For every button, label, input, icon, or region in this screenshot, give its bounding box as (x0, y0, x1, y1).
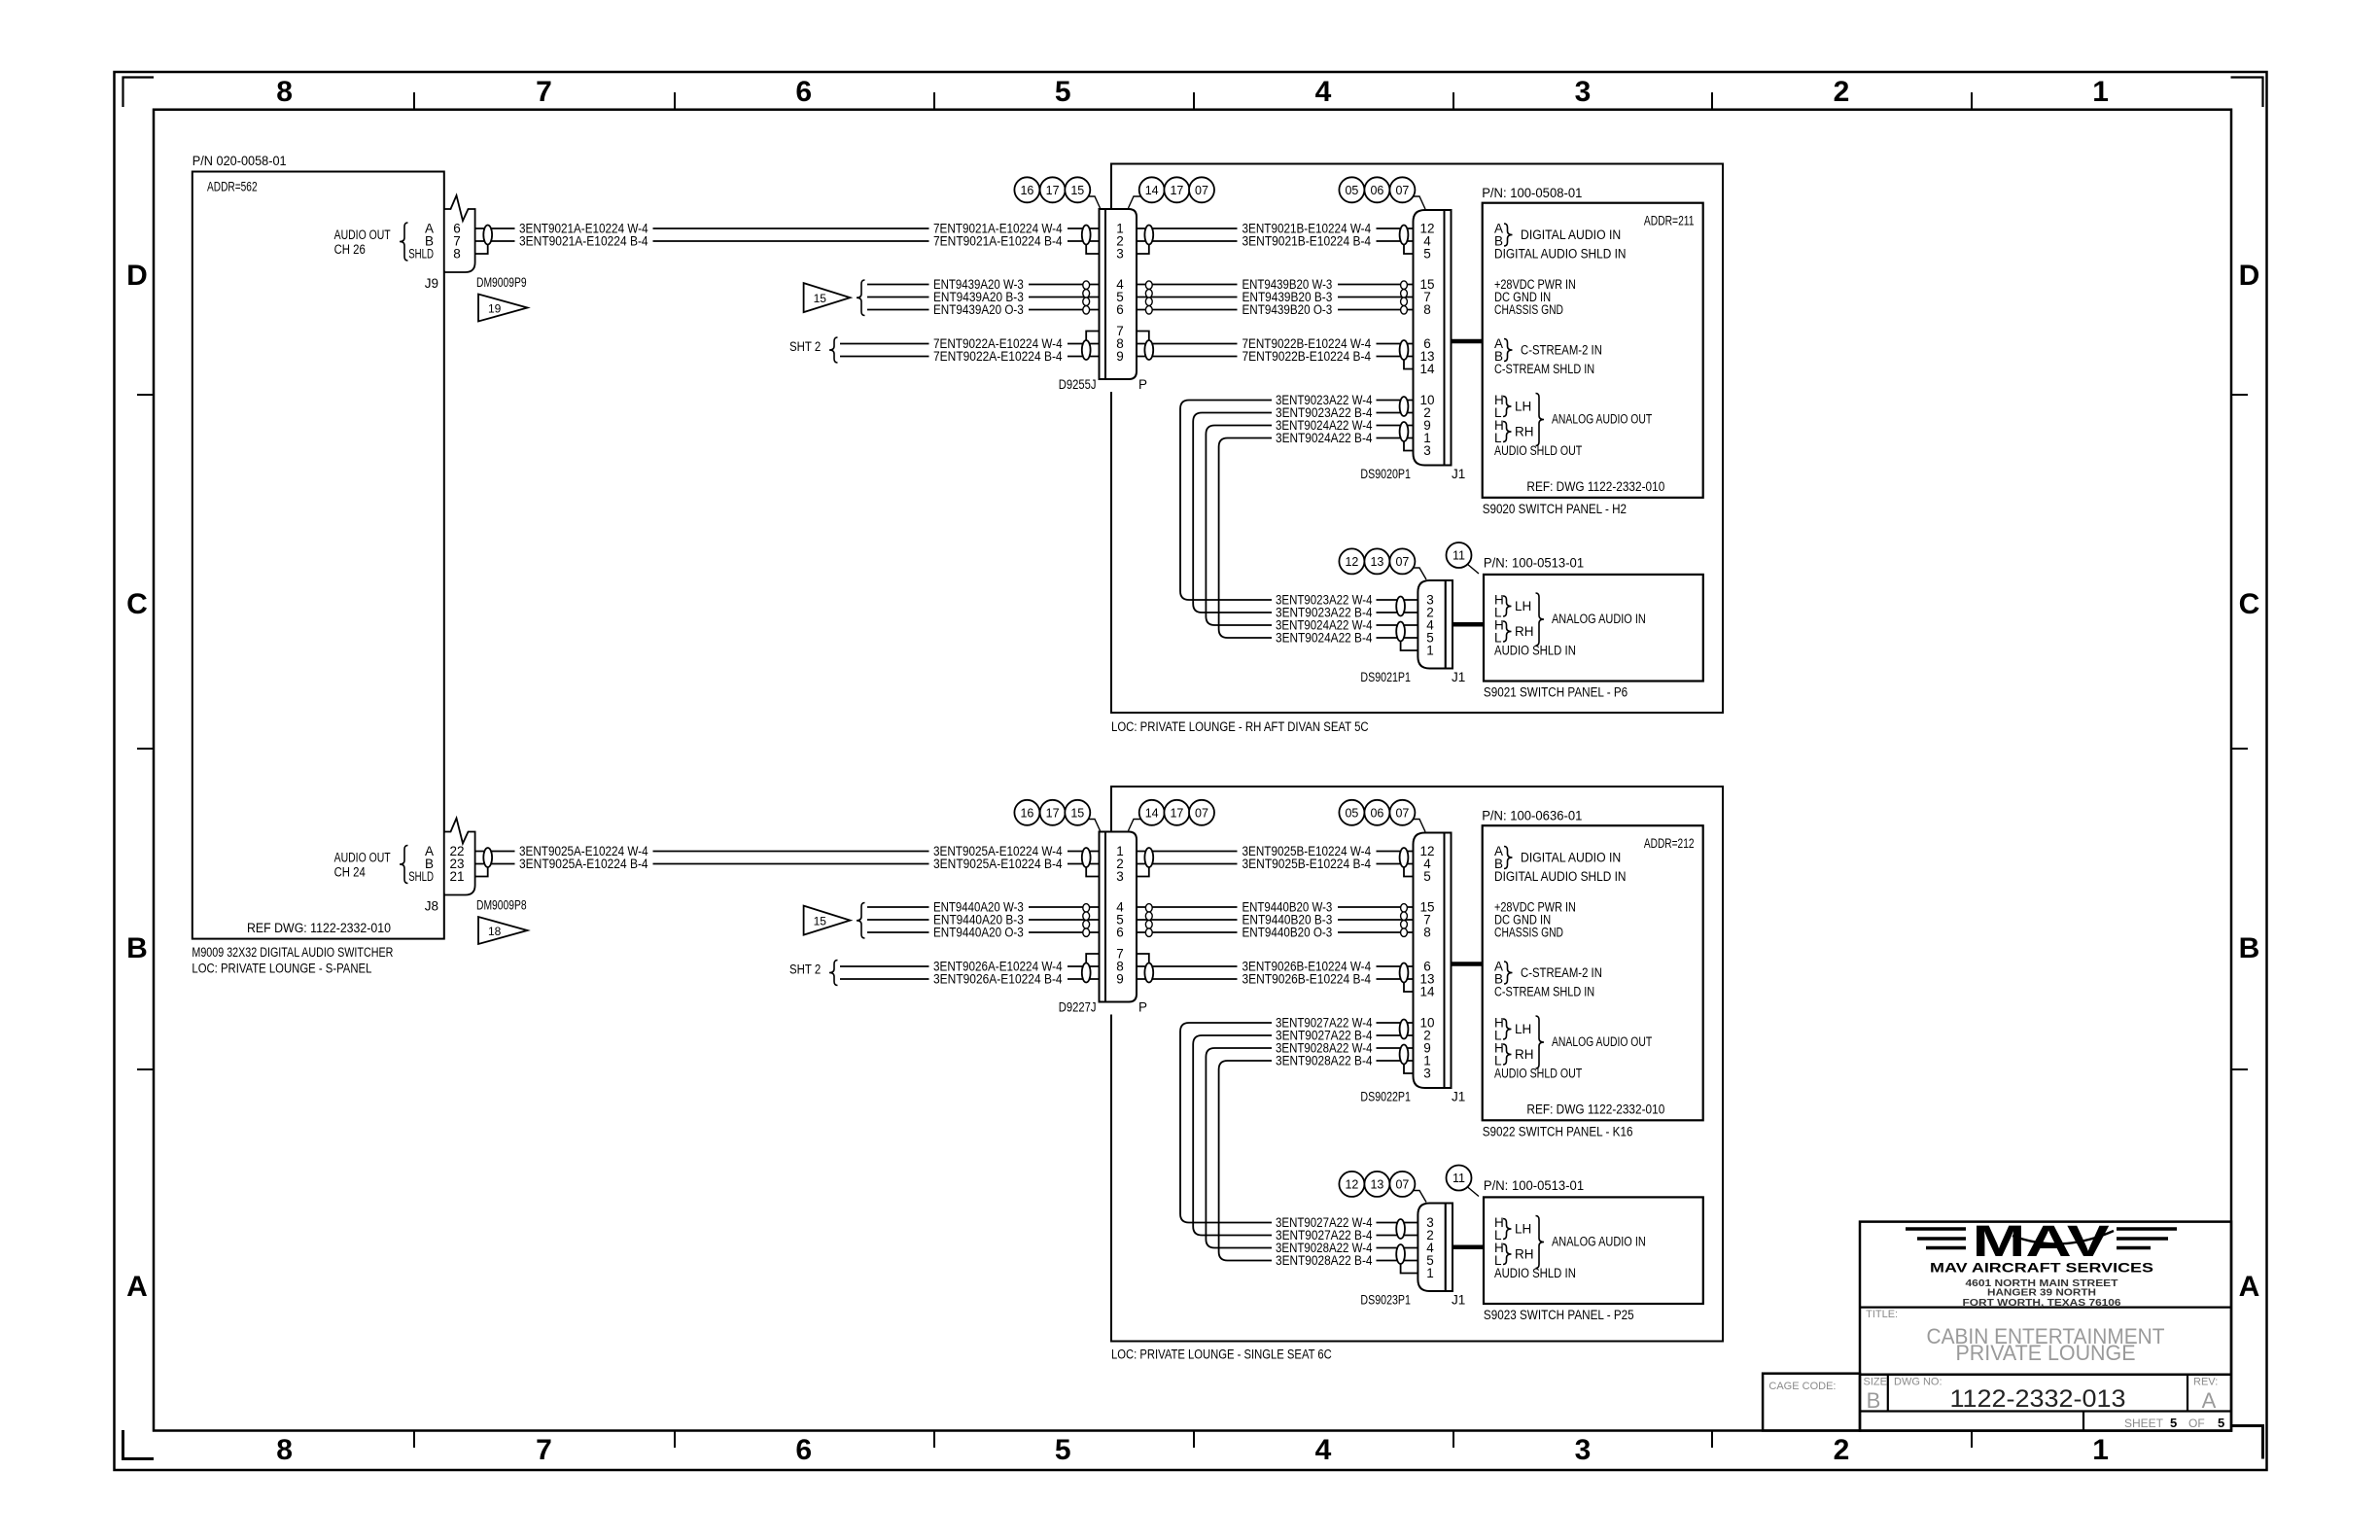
logo swoosh (2012, 1231, 2114, 1243)
wire ENT9439A20 O-3 (867, 309, 929, 311)
brace RH (1503, 1244, 1512, 1265)
svg-text:1: 1 (1426, 1266, 1434, 1280)
wire 3ENT9023A22 B-4 u-turn (1193, 413, 1272, 613)
svg-text:14: 14 (1145, 806, 1159, 820)
svg-text:C: C (2239, 588, 2260, 620)
svg-text:2: 2 (1834, 76, 1850, 108)
svg-text:6: 6 (795, 76, 812, 108)
connector stub J8 on M9009 (445, 833, 474, 893)
ref circle 05 (1339, 177, 1364, 202)
svg-text:REF: DWG 1122-2332-010: REF: DWG 1122-2332-010 (1526, 479, 1664, 494)
wire 3ENT9027A22 W-4 u-turn (1180, 1023, 1272, 1223)
zone tick top (1452, 92, 1454, 110)
shield to J1 pin 3 (1404, 441, 1414, 451)
svg-text:06: 06 (1370, 184, 1383, 197)
wire 3ENT9026B-E10224 B-4 (1137, 978, 1238, 980)
corner mark bottom-left (123, 1430, 155, 1459)
svg-text:6: 6 (1116, 302, 1124, 317)
brace A/B c-stream (1504, 339, 1513, 362)
svg-text:D9227J: D9227J (1059, 1000, 1097, 1015)
ref circle 16 (1014, 800, 1039, 825)
zone tick top (933, 92, 935, 110)
svg-text:A: A (126, 1271, 148, 1303)
wire 3ENT9025B-E10224 B-4 (1137, 863, 1238, 865)
svg-text:C-STREAM-2 IN: C-STREAM-2 IN (1521, 343, 1602, 358)
svg-text:CH 26: CH 26 (334, 242, 366, 257)
rev cell divider (2187, 1375, 2188, 1412)
svg-text:1: 1 (2092, 76, 2109, 108)
connector DS9021P1 plug body (1417, 580, 1445, 669)
svg-text:RH: RH (1515, 1047, 1534, 1062)
svg-text:16: 16 (1020, 806, 1033, 820)
box S9021 SWITCH PANEL - P6 (1484, 575, 1703, 682)
twist symbol right of main connector (1145, 281, 1152, 290)
svg-text:3ENT9028A22 B-4: 3ENT9028A22 B-4 (1276, 1253, 1373, 1268)
wire 3ENT9025B-E10224 W-4 (1137, 851, 1238, 853)
svg-text:MAV AIRCRAFT SERVICES: MAV AIRCRAFT SERVICES (1930, 1259, 2153, 1275)
ref circle 07 (1389, 177, 1415, 202)
leader to jack (1088, 820, 1101, 831)
wire 3ENT9026A-E10224 B-4 (840, 978, 929, 980)
svg-text:21: 21 (449, 869, 464, 884)
LOC enclosure box LOC: PRIVATE LOUNGE - SINGLE SEAT 6C (1111, 787, 1723, 1342)
leader (1413, 568, 1426, 579)
svg-text:4: 4 (1315, 1434, 1332, 1466)
brace triple (857, 903, 865, 939)
box S9020 SWITCH PANEL - H2 (1483, 203, 1703, 498)
svg-text:AUDIO SHLD IN: AUDIO SHLD IN (1494, 1266, 1576, 1280)
brace LH (1503, 1219, 1512, 1240)
inner border frame (154, 110, 2231, 1431)
svg-text:ENT9440A20 O-3: ENT9440A20 O-3 (933, 926, 1024, 940)
svg-text:DIGITAL AUDIO IN: DIGITAL AUDIO IN (1521, 851, 1621, 865)
ref circle 11 (1447, 1166, 1472, 1191)
wire 3ENT9025A-E10224 W-4 (475, 851, 515, 853)
svg-text:3: 3 (1575, 1434, 1592, 1466)
svg-text:3ENT9025A-E10224 B-4: 3ENT9025A-E10224 B-4 (519, 857, 648, 871)
zone tick top (1711, 92, 1713, 110)
svg-text:7: 7 (536, 1434, 552, 1466)
zone tick left (137, 748, 154, 750)
box S9023 SWITCH PANEL - P25 (1484, 1197, 1703, 1304)
wire ENT9440A20 O-3 (867, 931, 929, 933)
svg-text:14: 14 (1145, 184, 1159, 197)
svg-text:07: 07 (1395, 184, 1409, 197)
zone tick bottom (1711, 1431, 1713, 1449)
shield splice pair 1 (1396, 597, 1405, 616)
connector DS9022P1 plug body (1414, 833, 1445, 1089)
svg-text:7ENT9022A-E10224 B-4: 7ENT9022A-E10224 B-4 (933, 349, 1063, 364)
svg-text:9: 9 (1116, 349, 1124, 364)
ref circle 14 (1139, 177, 1165, 202)
ref circle 07 (1189, 800, 1214, 825)
svg-text:13: 13 (1370, 555, 1383, 569)
logo speed line right (2117, 1246, 2151, 1249)
ref circle 13 (1364, 548, 1389, 574)
svg-text:S9023 SWITCH PANEL - P25: S9023 SWITCH PANEL - P25 (1484, 1308, 1634, 1322)
svg-text:8: 8 (276, 76, 293, 108)
wire ENT9439B20 O-3 (1137, 309, 1238, 311)
svg-text:5: 5 (1423, 869, 1431, 884)
svg-text:J1: J1 (1452, 1293, 1465, 1308)
sheet cell divider (2082, 1412, 2084, 1431)
svg-text:2: 2 (1834, 1434, 1850, 1466)
bus J1 to panel B (1452, 1245, 1484, 1250)
svg-text:DS9021P1: DS9021P1 (1360, 670, 1411, 684)
svg-text:07: 07 (1395, 555, 1409, 569)
svg-text:P: P (1138, 1000, 1147, 1015)
svg-text:P: P (1138, 377, 1147, 392)
svg-text:SHLD: SHLD (408, 869, 434, 884)
svg-text:12: 12 (1345, 1177, 1358, 1191)
svg-text:P/N: 100-0513-01: P/N: 100-0513-01 (1484, 556, 1584, 571)
wire 3ENT9021B-E10224 B-4 (1137, 240, 1238, 242)
svg-text:15: 15 (1070, 806, 1084, 820)
brace triple (857, 280, 865, 316)
ref circle 06 (1364, 177, 1389, 202)
shield splice at stub (483, 848, 492, 867)
size cell divider (1887, 1375, 1889, 1412)
svg-text:1: 1 (1426, 644, 1434, 658)
svg-text:8: 8 (453, 247, 461, 262)
svg-text:ADDR=562: ADDR=562 (207, 180, 258, 194)
brace A/B/SHLD (400, 846, 408, 884)
ref circle 15 (1065, 800, 1090, 825)
connector J1 jack strip (1446, 580, 1452, 669)
svg-text:A: A (2202, 1388, 2217, 1413)
svg-text:3ENT9021A-E10224 B-4: 3ENT9021A-E10224 B-4 (519, 234, 648, 249)
svg-text:3ENT9024A22 B-4: 3ENT9024A22 B-4 (1276, 631, 1373, 646)
shield to pin 1 (1401, 642, 1418, 651)
svg-text:3ENT9021B-E10224 B-4: 3ENT9021B-E10224 B-4 (1242, 234, 1372, 249)
svg-text:11: 11 (1452, 549, 1465, 563)
svg-text:5: 5 (2218, 1416, 2224, 1430)
wire 3ENT9023A22 W-4 u-turn (1180, 401, 1272, 601)
svg-text:05: 05 (1345, 806, 1358, 820)
svg-text:PRIVATE LOUNGE: PRIVATE LOUNGE (1956, 1341, 2136, 1365)
flag triangle 18 (478, 917, 528, 944)
svg-text:REV:: REV: (2193, 1377, 2218, 1388)
brace RH (1503, 621, 1512, 642)
wire 7ENT9022B-E10224 W-4 (1137, 343, 1238, 345)
wire 3ENT9028A22 B-4 u-turn (1219, 1061, 1272, 1261)
brace LH (1503, 1019, 1512, 1039)
svg-text:ADDR=211: ADDR=211 (1644, 213, 1695, 227)
connector J1 jack strip (1445, 833, 1452, 1089)
zone tick right (2231, 394, 2248, 396)
brace LH (1503, 397, 1512, 417)
shield splice right of main connector (group C) (1144, 963, 1153, 983)
svg-text:B: B (2239, 932, 2260, 964)
brace A/B/SHLD (400, 223, 408, 261)
zone tick bottom (1971, 1431, 1973, 1449)
svg-text:3ENT9025A-E10224 B-4: 3ENT9025A-E10224 B-4 (933, 857, 1063, 871)
zone tick left (137, 1068, 154, 1070)
zone tick left (137, 394, 154, 396)
ref circle 07 (1389, 1172, 1415, 1197)
svg-text:LH: LH (1515, 1022, 1531, 1036)
connector J1 jack strip (1445, 210, 1452, 466)
wire ENT9439B20 B-3 (1137, 297, 1238, 298)
svg-text:S9020 SWITCH PANEL - H2: S9020 SWITCH PANEL - H2 (1483, 502, 1627, 516)
svg-text:RH: RH (1515, 425, 1534, 439)
svg-text:14: 14 (1419, 985, 1435, 999)
svg-text:15: 15 (1070, 184, 1084, 197)
wire ENT9439A20 B-3 (867, 297, 929, 298)
flag triangle 19 (478, 295, 528, 322)
wire 3ENT9024A22 B-4 u-turn (1219, 438, 1272, 639)
svg-text:3: 3 (1423, 443, 1431, 458)
svg-text:SHEET: SHEET (2124, 1417, 2164, 1430)
shield splice left of main connector (group C) (1082, 340, 1091, 360)
leader to J1 plug (1413, 820, 1425, 832)
shield splice pair 2 (1396, 622, 1405, 642)
svg-text:SHT 2: SHT 2 (789, 339, 821, 354)
svg-text:DM9009P8: DM9009P8 (476, 898, 527, 913)
svg-text:LOC: PRIVATE LOUNGE - SINGLE S: LOC: PRIVATE LOUNGE - SINGLE SEAT 6C (1111, 1347, 1332, 1362)
connector P plug body (1105, 832, 1137, 1002)
svg-text:07: 07 (1195, 806, 1208, 820)
svg-text:DIGITAL AUDIO SHLD IN: DIGITAL AUDIO SHLD IN (1494, 869, 1627, 884)
svg-text:DIGITAL AUDIO IN: DIGITAL AUDIO IN (1521, 227, 1621, 242)
leader to P/N (1467, 564, 1479, 574)
svg-text:3ENT9026A-E10224 B-4: 3ENT9026A-E10224 B-4 (933, 972, 1063, 987)
wires into J1 pins 10/2/9/1 (1377, 1022, 1414, 1024)
connector D9255J jack strip (1100, 209, 1106, 379)
ref circle 17 (1040, 177, 1066, 202)
svg-text:S9022 SWITCH PANEL - K16: S9022 SWITCH PANEL - K16 (1483, 1125, 1633, 1139)
svg-text:1: 1 (2092, 1434, 2109, 1466)
svg-text:DM9009P9: DM9009P9 (476, 275, 527, 290)
svg-text:CHASSIS GND: CHASSIS GND (1494, 926, 1563, 940)
shield splice at stub (483, 226, 492, 245)
zone tick bottom (933, 1431, 935, 1449)
svg-text:DS9022P1: DS9022P1 (1360, 1090, 1411, 1104)
shield splice left of main connector (group C) (1082, 963, 1091, 983)
wire ENT9439A20 W-3 (867, 284, 929, 286)
ref circle 05 (1339, 800, 1364, 825)
svg-text:5: 5 (1055, 76, 1071, 108)
wire 3ENT9026A-E10224 W-4 (840, 965, 929, 967)
zone tick top (674, 92, 676, 110)
connector P plug body (1105, 209, 1137, 379)
ref circle 16 (1014, 177, 1039, 202)
shield splice right of main connector (group C) (1144, 340, 1153, 360)
ref circle 17 (1164, 800, 1189, 825)
svg-text:SHLD: SHLD (408, 247, 434, 262)
ref circle 13 (1364, 1172, 1389, 1197)
svg-text:14: 14 (1419, 362, 1435, 376)
ref circle 17 (1040, 800, 1066, 825)
svg-text:RH: RH (1515, 624, 1534, 639)
ref circle 11 (1447, 542, 1472, 568)
brace analog out (1536, 1016, 1545, 1068)
svg-text:17: 17 (1046, 806, 1060, 820)
ref circle 12 (1339, 1172, 1364, 1197)
svg-text:07: 07 (1395, 806, 1409, 820)
svg-text:P/N 020-0058-01: P/N 020-0058-01 (192, 154, 287, 168)
logo speed line right (2117, 1237, 2168, 1240)
svg-text:5: 5 (2170, 1416, 2177, 1430)
logo speed line right (2117, 1227, 2177, 1230)
svg-text:16: 16 (1020, 184, 1033, 197)
connector J1 jack strip (1446, 1204, 1452, 1292)
svg-text:8: 8 (276, 1434, 293, 1466)
connector DS9020P1 plug body (1414, 210, 1445, 466)
wire 3ENT9021A-E10224 W-4 (475, 227, 515, 229)
svg-text:AUDIO SHLD OUT: AUDIO SHLD OUT (1494, 443, 1582, 458)
twist symbol at J1 (group B) (1401, 904, 1408, 913)
wire 3ENT9028A22 W-4 u-turn (1206, 1048, 1272, 1248)
svg-text:7ENT9021A-E10224 B-4: 7ENT9021A-E10224 B-4 (933, 234, 1063, 249)
svg-text:P/N: 100-0508-01: P/N: 100-0508-01 (1482, 186, 1582, 200)
corner mark bottom-right (2231, 1426, 2263, 1459)
svg-text:ANALOG AUDIO OUT: ANALOG AUDIO OUT (1552, 412, 1652, 427)
svg-text:ADDR=212: ADDR=212 (1644, 836, 1695, 851)
svg-text:07: 07 (1195, 184, 1208, 197)
svg-text:7: 7 (536, 76, 552, 108)
svg-text:1122-2332-013: 1122-2332-013 (1950, 1385, 2126, 1413)
shield splice J1 analog pair 2 (1400, 1045, 1409, 1065)
twist symbol left of main connector (1083, 281, 1090, 290)
svg-text:D: D (2239, 260, 2260, 292)
box S9022 SWITCH PANEL - K16 (1483, 825, 1703, 1120)
svg-text:7ENT9022B-E10224 B-4: 7ENT9022B-E10224 B-4 (1242, 349, 1372, 364)
svg-text:17: 17 (1170, 806, 1183, 820)
wire 7ENT9022A-E10224 B-4 (840, 356, 929, 358)
wire ENT9439B20 W-3 (1137, 284, 1238, 286)
logo speed line left (1906, 1227, 1966, 1230)
svg-text:4: 4 (1315, 76, 1332, 108)
leader (1413, 1191, 1426, 1203)
svg-text:5: 5 (1423, 247, 1431, 262)
svg-text:LOC: PRIVATE LOUNGE - RH AFT D: LOC: PRIVATE LOUNGE - RH AFT DIVAN SEAT … (1111, 719, 1369, 734)
svg-text:18: 18 (488, 925, 502, 938)
twist symbol at J1 (group B) (1401, 281, 1408, 290)
svg-text:C: C (126, 588, 148, 620)
shield splice J1 analog pair 1 (1400, 1020, 1409, 1039)
svg-text:3ENT9026B-E10224 B-4: 3ENT9026B-E10224 B-4 (1242, 972, 1372, 987)
svg-text:3: 3 (1116, 247, 1124, 262)
ref circle 07 (1189, 177, 1214, 202)
brace A/B digital (1504, 224, 1513, 246)
brace RH (1503, 422, 1512, 442)
svg-text:ANALOG AUDIO OUT: ANALOG AUDIO OUT (1552, 1034, 1652, 1049)
svg-text:DS9020P1: DS9020P1 (1360, 467, 1411, 481)
svg-text:P/N: 100-0513-01: P/N: 100-0513-01 (1484, 1178, 1584, 1193)
shield splice right of main connector (1144, 226, 1153, 245)
ref circle 06 (1364, 800, 1389, 825)
wire 3ENT9021A-E10224 B-4 (475, 240, 515, 242)
leader to P/N (1467, 1187, 1479, 1197)
shield splice J1 analog pair 2 (1400, 422, 1409, 441)
brace A/B c-stream (1504, 962, 1513, 984)
svg-text:6: 6 (1116, 926, 1124, 940)
svg-text:8: 8 (1423, 302, 1431, 317)
zone tick bottom (1193, 1431, 1195, 1449)
wire 3ENT9027A22 B-4 u-turn (1193, 1035, 1272, 1236)
shield to pin 1 (1401, 1264, 1418, 1274)
shield splice pair 1 (1396, 1219, 1405, 1239)
svg-text:LH: LH (1515, 599, 1531, 613)
svg-text:11: 11 (1452, 1172, 1465, 1185)
wire 7ENT9022B-E10224 B-4 (1137, 356, 1238, 358)
ref circle 07 (1389, 800, 1415, 825)
svg-text:CAGE CODE:: CAGE CODE: (1768, 1381, 1836, 1392)
svg-text:AUDIO OUT: AUDIO OUT (334, 851, 391, 865)
svg-text:J9: J9 (425, 276, 438, 291)
brace analog in (1536, 593, 1545, 646)
cage code cell (1763, 1374, 1860, 1431)
wires into J1 pins 10/2/9/1 (1377, 400, 1414, 402)
svg-text:5: 5 (1055, 1434, 1071, 1466)
svg-text:D: D (126, 260, 148, 292)
title block divider logo/title (1860, 1306, 2231, 1308)
bus J1 to panel B (1452, 622, 1484, 627)
wires into DS9023P1 pins 3/2/4/5 (1377, 1222, 1418, 1224)
shield splice at J1 (group C) (1400, 963, 1409, 983)
wire ENT9440B20 O-3 (1137, 931, 1238, 933)
shield splice left of main connector (1082, 848, 1091, 867)
svg-text:A: A (2239, 1271, 2260, 1303)
zone tick right (2231, 1068, 2248, 1070)
svg-text:AUDIO OUT: AUDIO OUT (334, 227, 391, 242)
title block (1860, 1222, 2231, 1431)
svg-text:J1: J1 (1452, 467, 1465, 481)
leader to J1 plug (1413, 196, 1425, 209)
svg-text:DS9023P1: DS9023P1 (1360, 1293, 1411, 1308)
connector D9227J jack strip (1100, 832, 1106, 1002)
svg-text:DWG NO:: DWG NO: (1894, 1377, 1942, 1388)
ref circle 12 (1339, 548, 1364, 574)
svg-text:LOC: PRIVATE LOUNGE - S-PANEL: LOC: PRIVATE LOUNGE - S-PANEL (192, 962, 371, 976)
svg-text:3: 3 (1423, 1067, 1431, 1081)
brace SHT2 pair (829, 337, 838, 363)
leader to jack (1088, 196, 1101, 208)
M9009 32x32 digital audio switcher box (192, 172, 444, 939)
flag triangle 15 (804, 906, 851, 935)
svg-text:8: 8 (1423, 926, 1431, 940)
svg-text:D9255J: D9255J (1059, 377, 1097, 392)
svg-text:B: B (126, 932, 148, 964)
shield splice at J1 (group A) (1400, 848, 1409, 867)
brace A/B digital (1504, 847, 1513, 869)
shield splice left of main connector (1082, 226, 1091, 245)
title block divider dwg/sheet (1860, 1410, 2231, 1412)
shield to J1 pin 3 (1404, 1065, 1414, 1074)
svg-text:LH: LH (1515, 1222, 1531, 1237)
corner mark top-left (123, 78, 155, 108)
bus J1 to panel A (1452, 962, 1483, 966)
connector stub J9 on M9009 (445, 210, 474, 270)
shield splice pair 2 (1396, 1244, 1405, 1264)
svg-text:ENT9439B20 O-3: ENT9439B20 O-3 (1242, 302, 1333, 317)
svg-text:3: 3 (1575, 76, 1592, 108)
svg-text:17: 17 (1046, 184, 1060, 197)
wire 3ENT9026B-E10224 W-4 (1137, 965, 1238, 967)
svg-text:06: 06 (1370, 806, 1383, 820)
svg-text:OF: OF (2188, 1417, 2205, 1430)
wire 3ENT9025A-E10224 B-4 (475, 863, 515, 865)
zone tick top (413, 92, 415, 110)
shield splice right of main connector (1144, 848, 1153, 867)
svg-text:AUDIO SHLD IN: AUDIO SHLD IN (1494, 644, 1576, 658)
brace LH (1503, 596, 1512, 616)
wire 3ENT9021B-E10224 W-4 (1137, 227, 1238, 229)
wire ENT9440A20 B-3 (867, 919, 929, 921)
corner mark top-right (2231, 78, 2263, 108)
svg-text:REF DWG: 1122-2332-010: REF DWG: 1122-2332-010 (247, 921, 391, 935)
